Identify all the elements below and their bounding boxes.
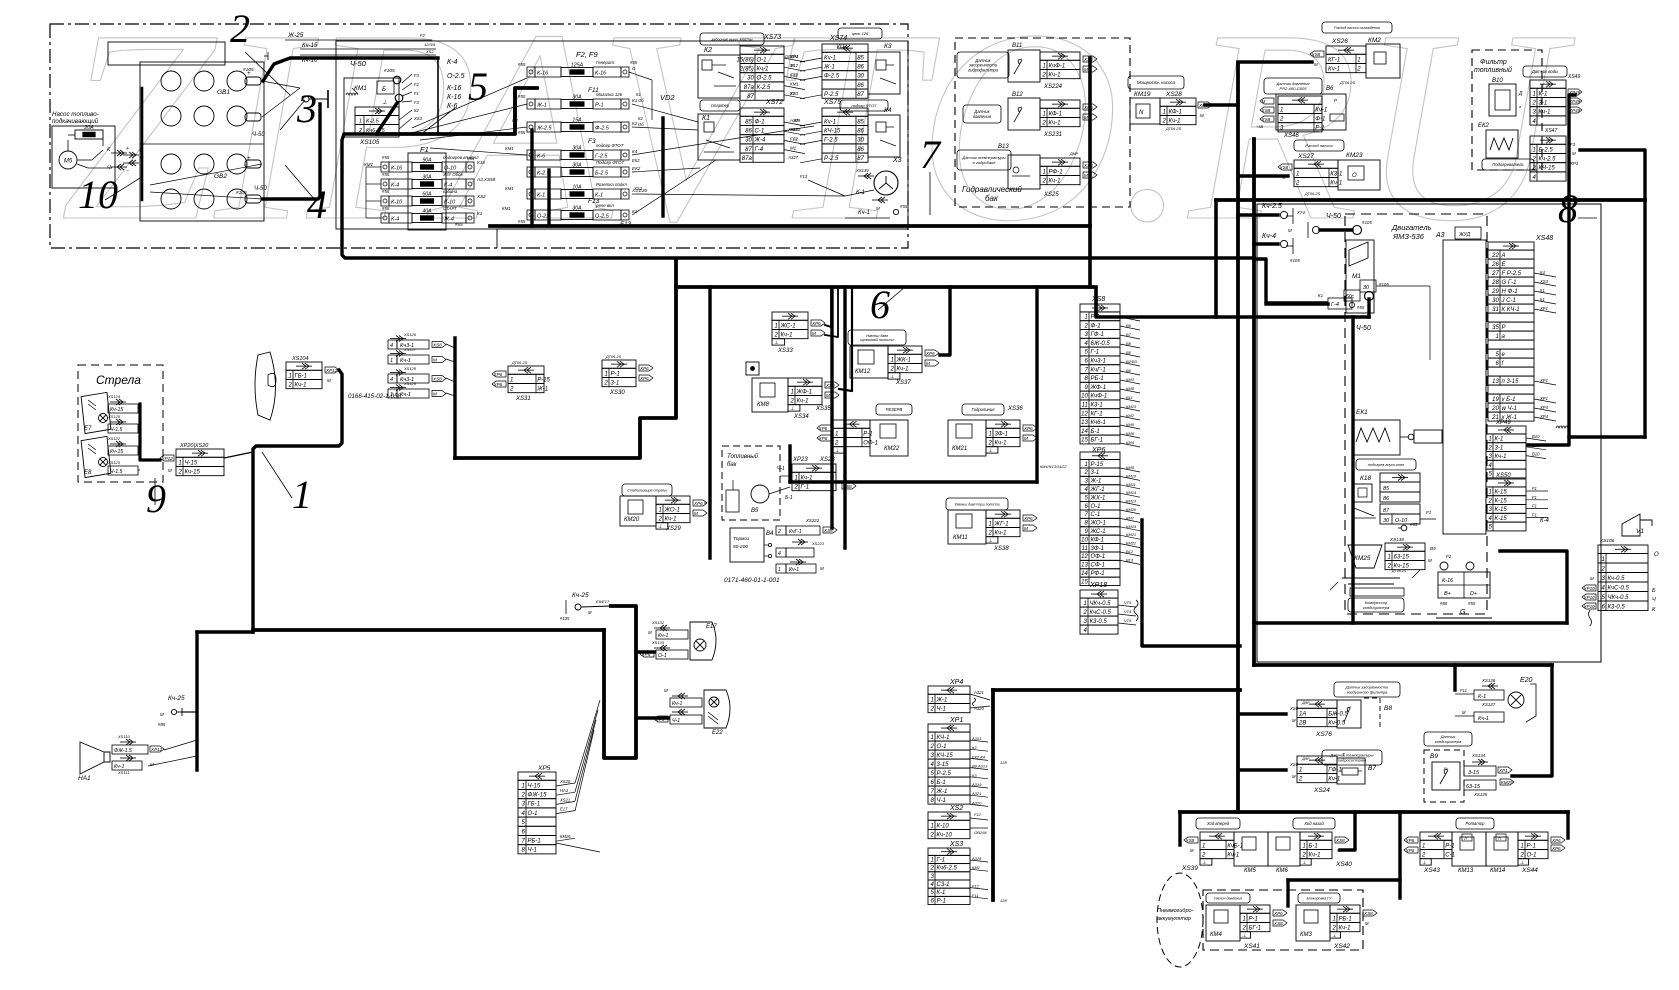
svg-text:+5В: +5В xyxy=(1256,124,1264,129)
valve row XS39 KM5 KM6 XS40 xyxy=(1196,818,1240,829)
svg-text:ЖС-1: ЖС-1 xyxy=(1090,529,1106,535)
svg-text:топливный: топливный xyxy=(1474,66,1512,74)
svg-text:ХР6: ХР6 xyxy=(1551,846,1561,851)
svg-text:Насос топливо-: Насос топливо- xyxy=(52,111,99,118)
svg-text:⊥: ⊥ xyxy=(1520,860,1524,866)
svg-text:М: М xyxy=(1428,558,1432,563)
svg-text:ЖО-1: ЖО-1 xyxy=(1090,521,1106,527)
svg-text:87: 87 xyxy=(1383,508,1390,514)
svg-text:кабина: кабина xyxy=(443,189,458,194)
svg-text:J С-1: J С-1 xyxy=(1501,298,1516,304)
svg-text:86: 86 xyxy=(857,83,864,89)
sensor B12 xyxy=(963,105,1001,123)
svg-text:К-4: К-4 xyxy=(391,183,399,189)
svg-text:КМ9: КМ9 xyxy=(1126,465,1135,470)
icon box xyxy=(746,362,759,375)
svg-text:1: 1 xyxy=(1162,109,1165,115)
svg-text:К1: К1 xyxy=(636,92,641,97)
svg-text:ХР10: ХР10 xyxy=(1583,604,1596,609)
svg-text:31: 31 xyxy=(1492,307,1499,313)
svg-text:86: 86 xyxy=(857,147,864,153)
svg-text:1: 1 xyxy=(1532,147,1535,153)
svg-text:2: 2 xyxy=(657,516,662,522)
fuel tank box xyxy=(722,446,780,520)
svg-text:Ч-50: Ч-50 xyxy=(254,186,267,192)
svg-text:F Р-2.5: F Р-2.5 xyxy=(1502,271,1522,277)
svg-text:Б: Б xyxy=(382,87,386,93)
svg-text:КМ8: КМ8 xyxy=(1126,386,1135,391)
svg-text:XS36: XS36 xyxy=(1007,406,1023,412)
relay K18 xyxy=(1356,459,1416,470)
ignition switch xyxy=(303,96,309,102)
svg-text:3Ф-1: 3Ф-1 xyxy=(995,431,1008,437)
svg-text:М: М xyxy=(1572,151,1576,156)
svg-text:В8: В8 xyxy=(1126,341,1132,346)
svg-text:87а: 87а xyxy=(742,156,753,162)
svg-text:ДТ06-2S: ДТ06-2S xyxy=(1339,81,1356,85)
svg-text:Ход вперед: Ход вперед xyxy=(1206,821,1230,826)
svg-text:Ч-1: Ч-1 xyxy=(937,706,946,712)
svg-text:М: М xyxy=(694,511,698,516)
svg-text:90А: 90А xyxy=(422,158,432,164)
watermark ZIPAVTO.RU xyxy=(60,0,1576,278)
svg-text:XS48: XS48 xyxy=(1535,235,1553,242)
wire B8 stub xyxy=(1240,712,1286,715)
wire y665 engine bottom xyxy=(1254,663,1552,667)
frame dash-dot xyxy=(50,24,908,248)
svg-text:КМ10: КМ10 xyxy=(1126,473,1137,478)
svg-text:Ф-2.5: Ф-2.5 xyxy=(595,126,610,132)
svg-text:XS133: XS133 xyxy=(651,640,665,645)
svg-text:К2: К2 xyxy=(972,745,977,750)
svg-text:XS44: XS44 xyxy=(1521,867,1538,874)
svg-text:F13: F13 xyxy=(800,174,808,179)
svg-text:ДТ06-2S: ДТ06-2S xyxy=(605,355,622,359)
wire big left loop xyxy=(197,630,253,633)
svg-text:XS24: XS24 xyxy=(1313,787,1330,794)
svg-text:125А: 125А xyxy=(571,63,584,69)
svg-text:М: М xyxy=(1084,67,1088,72)
svg-text:РБ-1: РБ-1 xyxy=(528,838,541,844)
svg-text:30: 30 xyxy=(1492,298,1499,304)
svg-text:К3: К3 xyxy=(884,43,892,50)
svg-text:#55: #55 xyxy=(382,155,390,160)
svg-text:СФ-1: СФ-1 xyxy=(1091,563,1105,569)
svg-text:XS123: XS123 xyxy=(107,460,121,465)
wire filter right XS47 xyxy=(1580,150,1645,437)
svg-text:3-1: 3-1 xyxy=(1091,470,1100,476)
svg-text:XS224: XS224 xyxy=(1043,84,1063,90)
svg-text:Об: Об xyxy=(638,98,644,103)
svg-text:4: 4 xyxy=(307,182,327,227)
svg-text:2В: 2В xyxy=(1298,720,1306,726)
svg-text:30: 30 xyxy=(747,76,754,82)
svg-text:А321: А321 xyxy=(973,690,984,695)
relay KM12 XS37 xyxy=(848,330,906,345)
svg-text:+: + xyxy=(247,156,251,162)
connector XS26 relay KM2 xyxy=(1322,22,1392,33)
svg-text:10: 10 xyxy=(78,172,118,217)
svg-text:Ч-1.5: Ч-1.5 xyxy=(110,469,123,475)
svg-text:1: 1 xyxy=(1387,554,1390,560)
svg-text:ХР1: ХР1 xyxy=(1539,396,1548,401)
svg-text:КМ1: КМ1 xyxy=(972,865,980,870)
svg-text:F1: F1 xyxy=(793,136,798,141)
svg-text:1: 1 xyxy=(1495,334,1498,340)
svg-text:ГБ-1: ГБ-1 xyxy=(295,373,308,379)
svg-text:Ч-15: Ч-15 xyxy=(185,460,198,466)
svg-text:ХР1: ХР1 xyxy=(1539,306,1548,311)
svg-text:ХР6: ХР6 xyxy=(1551,838,1561,843)
svg-text:КМ12: КМ12 xyxy=(855,369,871,375)
svg-text:РБ-1: РБ-1 xyxy=(1339,916,1352,922)
svg-text:10А: 10А xyxy=(572,185,582,191)
svg-text:XS40: XS40 xyxy=(1335,861,1352,868)
svg-text:2: 2 xyxy=(1600,566,1605,572)
svg-text:9: 9 xyxy=(146,476,166,521)
svg-text:Кч-1: Кч-1 xyxy=(897,366,909,372)
svg-text:Кч-1: Кч-1 xyxy=(1539,110,1551,116)
svg-text:М: М xyxy=(1314,62,1318,67)
svg-text:2: 2 xyxy=(789,398,794,404)
svg-text:ДМР: ДМР xyxy=(1069,152,1079,156)
svg-text:Гидролиния: Гидролиния xyxy=(972,407,996,412)
svg-text:XS129: XS129 xyxy=(403,381,417,386)
svg-text:Кч-1: Кч-1 xyxy=(858,210,870,216)
wire K-4 down xyxy=(1500,551,1567,623)
svg-text:К3-1: К3-1 xyxy=(1091,403,1103,409)
svg-text:Топливный: Топливный xyxy=(727,453,759,460)
svg-text:Ход назад: Ход назад xyxy=(1303,821,1324,826)
svg-text:ХР12: ХР12 xyxy=(325,368,338,373)
svg-text:ХР18: ХР18 xyxy=(1089,582,1107,589)
svg-text:XS39: XS39 xyxy=(1181,865,1198,872)
svg-text:В13: В13 xyxy=(1126,557,1134,562)
svg-text:Стабилизация стрелы: Стабилизация стрелы xyxy=(627,488,667,492)
svg-text:GB2/М: GB2/М xyxy=(974,830,987,835)
lamp E8 xyxy=(81,436,111,477)
svg-text:86: 86 xyxy=(745,128,752,134)
svg-text:Кч3-1: Кч3-1 xyxy=(1091,359,1106,365)
svg-text:Ж-1: Ж-1 xyxy=(936,697,948,703)
svg-text:гидрофильтра: гидрофильтра xyxy=(968,67,999,72)
wire E20 stub xyxy=(1453,665,1456,690)
svg-text:Ч-50: Ч-50 xyxy=(252,132,265,138)
boom Strela dashed box xyxy=(78,365,163,482)
svg-text:Блокировка ГУ: Блокировка ГУ xyxy=(1307,896,1333,900)
bus y287 xyxy=(455,259,676,458)
svg-text:М: М xyxy=(433,391,437,396)
svg-text:XS2: XS2 xyxy=(949,805,963,812)
svg-text:Кч-15: Кч-15 xyxy=(185,469,201,475)
svg-text:К1: К1 xyxy=(1540,288,1545,293)
svg-text:Е7: Е7 xyxy=(84,426,92,432)
svg-text:В9,А313: В9,А313 xyxy=(972,764,988,769)
svg-text:2: 2 xyxy=(520,792,525,798)
svg-text:1: 1 xyxy=(930,697,933,703)
svg-text:12/3/9: 12/3/9 xyxy=(424,42,436,47)
svg-text:2: 2 xyxy=(1386,563,1391,569)
svg-text:КМ4/9/13/14/22: КМ4/9/13/14/22 xyxy=(1040,465,1067,469)
svg-text:2: 2 xyxy=(1082,610,1087,616)
wires top xyxy=(285,39,432,41)
wire KM1 out to fuse rail xyxy=(377,88,537,134)
svg-text:К-16: К-16 xyxy=(537,71,549,77)
svg-text:VD1: VD1 xyxy=(836,44,848,50)
svg-text:⊥: ⊥ xyxy=(1332,933,1336,939)
fuel filter dashed box xyxy=(1472,50,1542,170)
svg-text:1: 1 xyxy=(1296,171,1299,177)
svg-text:Стрела: Стрела xyxy=(96,373,141,387)
svg-text:О-2.5: О-2.5 xyxy=(595,214,610,220)
svg-text:Р-1: Р-1 xyxy=(1091,315,1100,321)
svg-text:GB1: GB1 xyxy=(217,89,230,96)
svg-text:⊥: ⊥ xyxy=(774,340,778,346)
svg-text:ХР6: ХР6 xyxy=(1405,838,1415,843)
svg-text:XS111: XS111 xyxy=(117,770,129,775)
svg-text:ЧКч-0.5: ЧКч-0.5 xyxy=(1090,601,1112,607)
svg-text:Ж-1: Ж-1 xyxy=(823,64,835,70)
svg-text:XS134: XS134 xyxy=(1471,753,1486,758)
svg-text:ЖХ-1: ЖХ-1 xyxy=(1090,495,1106,501)
svg-text:2: 2 xyxy=(1301,852,1306,858)
svg-text:бак: бак xyxy=(985,194,999,203)
svg-text:ХР6: ХР6 xyxy=(493,382,503,387)
svg-text:F1: F1 xyxy=(414,91,419,96)
svg-text:XS3: XS3 xyxy=(633,186,643,191)
svg-text:К4: К4 xyxy=(884,107,892,114)
svg-text:Кч-25: Кч-25 xyxy=(572,592,589,599)
svg-text:В4: В4 xyxy=(766,531,774,537)
svg-text:КМ22: КМ22 xyxy=(884,446,900,452)
svg-text:VT6: VT6 xyxy=(1124,618,1132,623)
wire KM19 to bus xyxy=(1205,103,1238,107)
svg-text:XS8: XS8 xyxy=(432,342,442,347)
svg-text:А328: А328 xyxy=(971,856,982,861)
svg-text:1: 1 xyxy=(774,323,777,329)
svg-text:Ж-4: Ж-4 xyxy=(754,138,767,144)
svg-text:XS43: XS43 xyxy=(1423,867,1440,874)
wires fuse to relays xyxy=(632,104,698,122)
svg-text:В11: В11 xyxy=(1126,395,1133,400)
svg-text:КМ1: КМ1 xyxy=(502,206,511,211)
svg-text:XS29: XS29 xyxy=(665,526,681,532)
svg-text:КМ7: КМ7 xyxy=(1126,515,1135,520)
svg-text:G Г-1: G Г-1 xyxy=(1502,280,1517,286)
svg-text:Кч-1: Кч-1 xyxy=(781,332,793,338)
svg-text:1: 1 xyxy=(604,371,607,377)
svg-text:В+: В+ xyxy=(1444,591,1452,597)
svg-text:10: 10 xyxy=(1081,537,1088,543)
svg-text:В7: В7 xyxy=(1126,332,1132,337)
svg-text:F12: F12 xyxy=(972,884,980,889)
svg-text:XS138: XS138 xyxy=(1389,537,1404,542)
svg-text:О-2.5: О-2.5 xyxy=(447,73,465,80)
svg-text:⊥: ⊥ xyxy=(1422,860,1426,866)
svg-text:К-1: К-1 xyxy=(937,890,946,896)
svg-text:F2: F2 xyxy=(420,33,426,38)
svg-text:Кч6-2.5: Кч6-2.5 xyxy=(366,128,386,134)
svg-text:XS139: XS139 xyxy=(855,168,869,173)
svg-text:подкачивающий: подкачивающий xyxy=(52,118,99,125)
svg-text:стартер: стартер xyxy=(711,103,730,108)
svg-text:50-200: 50-200 xyxy=(733,544,748,550)
svg-text:КФ-1: КФ-1 xyxy=(1049,111,1063,117)
svg-text:29: 29 xyxy=(1491,289,1499,295)
svg-text:М: М xyxy=(664,688,668,693)
svg-text:ЖГ-1: ЖГ-1 xyxy=(994,521,1009,527)
svg-text:85: 85 xyxy=(857,55,864,61)
svg-text:XS137: XS137 xyxy=(1481,702,1496,707)
svg-text:К-1: К-1 xyxy=(1495,437,1504,443)
svg-text:в: в xyxy=(1519,104,1521,109)
svg-text:30: 30 xyxy=(1363,285,1370,291)
svg-text:О-1: О-1 xyxy=(757,57,767,63)
wire lamp down xyxy=(253,370,342,632)
sensor B6 xyxy=(1264,78,1322,94)
svg-text:ОФ-1: ОФ-1 xyxy=(863,440,878,446)
svg-text:ХР5: ХР5 xyxy=(537,765,551,772)
fog lamp XS104 xyxy=(255,352,276,420)
svg-text:⊥: ⊥ xyxy=(988,448,992,454)
svg-text:Р-2.5: Р-2.5 xyxy=(824,156,839,162)
svg-text:Г-4: Г-4 xyxy=(755,147,764,153)
svg-text:ФЖ-15: ФЖ-15 xyxy=(528,792,548,798)
svg-text:Кч-10: Кч-10 xyxy=(937,832,953,838)
svg-text:ДТ06-2S: ДТ06-2S xyxy=(1165,127,1182,131)
svg-text:КМ4: КМ4 xyxy=(1126,440,1135,445)
svg-text:М: М xyxy=(1365,921,1369,926)
svg-text:КМ21: КМ21 xyxy=(1126,532,1136,537)
svg-text:ХР6: ХР6 xyxy=(1091,447,1105,454)
svg-text:К-15: К-15 xyxy=(1495,498,1508,504)
svg-text:⊥: ⊥ xyxy=(1202,860,1206,866)
svg-text:О-1: О-1 xyxy=(1527,852,1537,858)
svg-text:F3: F3 xyxy=(588,138,596,145)
svg-text:ДТ06-2S: ДТ06-2S xyxy=(1391,569,1407,573)
svg-text:Ч-1: Ч-1 xyxy=(937,798,946,804)
svg-text:40А: 40А xyxy=(422,209,432,215)
svg-text:Кч-1: Кч-1 xyxy=(1169,118,1181,124)
svg-text:2: 2 xyxy=(1161,118,1166,124)
svg-text:К4: К4 xyxy=(1540,270,1545,275)
svg-text:11: 11 xyxy=(1082,546,1088,552)
svg-text:КМ1: КМ1 xyxy=(364,162,374,167)
svg-text:Мигалка 126: Мигалка 126 xyxy=(596,92,623,97)
svg-text:2: 2 xyxy=(929,866,934,872)
svg-text:ХР6: ХР6 xyxy=(1023,516,1033,521)
svg-text:Кч-1: Кч-1 xyxy=(400,392,411,398)
svg-text:Расход насоса охлаждения: Расход насоса охлаждения xyxy=(1334,26,1380,30)
svg-text:подогрев впуск.конл: подогрев впуск.конл xyxy=(1368,463,1405,467)
svg-text:К3: К3 xyxy=(972,773,977,778)
svg-text:2: 2 xyxy=(1041,72,1046,78)
svg-text:В5: В5 xyxy=(751,508,759,514)
svg-text:заборная вынл. масты: заборная вынл. масты xyxy=(710,37,752,41)
svg-text:М: М xyxy=(433,357,437,362)
svg-text:GB2/М: GB2/М xyxy=(785,54,799,59)
svg-text:Кч-1: Кч-1 xyxy=(1328,66,1340,72)
svg-text:2: 2 xyxy=(358,128,362,134)
svg-text:Ч-1.5: Ч-1.5 xyxy=(110,427,123,433)
svg-text:Б-1: Б-1 xyxy=(1309,843,1318,849)
svg-text:В6: В6 xyxy=(1126,323,1132,328)
svg-text:XS28: XS28 xyxy=(1165,91,1182,98)
svg-text:#55: #55 xyxy=(1357,305,1365,310)
svg-text:КчБ-1: КчБ-1 xyxy=(1227,843,1243,849)
svg-text:Г-1: Г-1 xyxy=(801,484,810,490)
svg-text:6Ж-0.5: 6Ж-0.5 xyxy=(1091,341,1111,347)
sensor B11 xyxy=(957,52,1009,78)
svg-text:Кч-25: Кч-25 xyxy=(168,695,185,702)
svg-text:Ж/У Обог: Ж/У Обог xyxy=(442,172,464,177)
svg-text:кондиционера: кондиционера xyxy=(1363,605,1390,610)
svg-text:О-1: О-1 xyxy=(1091,504,1101,510)
svg-text:Кч6-1: Кч6-1 xyxy=(1091,420,1106,426)
svg-text:63-15: 63-15 xyxy=(1466,784,1481,790)
svg-text:15А: 15А xyxy=(572,118,582,124)
svg-text:F3: F3 xyxy=(414,100,420,105)
svg-text:F1: F1 xyxy=(1426,510,1432,515)
svg-text:ЖУД: ЖУД xyxy=(1458,232,1471,238)
svg-text:1: 1 xyxy=(1422,843,1425,849)
svg-text:XS8: XS8 xyxy=(1335,838,1345,843)
svg-text:3Ф-1: 3Ф-1 xyxy=(1091,546,1104,552)
svg-text:22: 22 xyxy=(1491,253,1499,259)
svg-text:Е9/Е17: Е9/Е17 xyxy=(596,599,610,604)
svg-text:XS104: XS104 xyxy=(291,356,309,362)
svg-text:2: 2 xyxy=(834,440,839,446)
svg-text:КчФ-1: КчФ-1 xyxy=(1091,394,1108,400)
svg-text:М: М xyxy=(1024,526,1028,531)
svg-text:КМ1: КМ1 xyxy=(505,146,514,151)
svg-text:#85: #85 xyxy=(158,722,166,727)
svg-text:128: 128 xyxy=(1000,760,1007,765)
svg-text:XS8: XS8 xyxy=(1261,108,1271,113)
svg-text:85: 85 xyxy=(745,119,752,125)
svg-text:Р-2.5: Р-2.5 xyxy=(824,92,839,98)
svg-text:Г-1: Г-1 xyxy=(1091,350,1100,356)
svg-text:К-4: К-4 xyxy=(391,217,399,223)
svg-text:XS49: XS49 xyxy=(1567,74,1580,80)
svg-text:2: 2 xyxy=(929,744,934,750)
svg-text:Кч-1: Кч-1 xyxy=(995,440,1007,446)
wire main vertical 1254 xyxy=(1252,139,1256,665)
svg-text:13: 13 xyxy=(1081,420,1088,426)
svg-text:2: 2 xyxy=(1083,470,1088,476)
svg-text:XS8: XS8 xyxy=(1091,296,1105,303)
svg-text:Ж-1: Ж-1 xyxy=(536,103,547,109)
svg-text:К2: К2 xyxy=(704,47,712,54)
svg-text:Ж-4: Ж-4 xyxy=(443,217,454,223)
svg-text:Фильтр: Фильтр xyxy=(1480,59,1507,66)
svg-text:КФ-1: КФ-1 xyxy=(1169,109,1183,115)
svg-text:Ж-1: Ж-1 xyxy=(536,386,548,392)
svg-text:П: П xyxy=(1498,837,1501,841)
svg-text:ХР23: ХР23 xyxy=(792,457,808,463)
svg-text:ЖГ-1: ЖГ-1 xyxy=(1090,487,1105,493)
svg-text:3-1: 3-1 xyxy=(611,380,620,386)
svg-text:К-1: К-1 xyxy=(1539,91,1548,97)
svg-text:К-16: К-16 xyxy=(1442,578,1454,584)
svg-text:О-1: О-1 xyxy=(658,653,667,659)
svg-text:давления: давления xyxy=(973,114,992,119)
svg-text:КЧ-15: КЧ-15 xyxy=(937,753,954,759)
valve row XS43 KM13 KM14 XS44 xyxy=(1456,818,1494,829)
svg-text:В12: В12 xyxy=(1126,549,1134,554)
svg-text:XS37: XS37 xyxy=(895,380,911,386)
svg-text:1: 1 xyxy=(1532,91,1535,97)
